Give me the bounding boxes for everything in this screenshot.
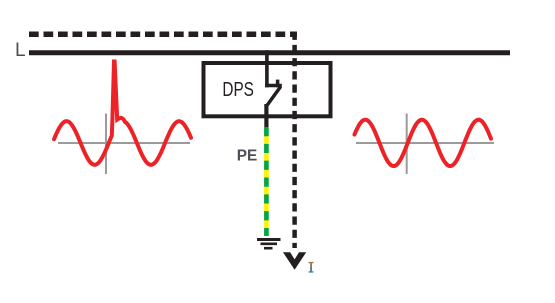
svg-text:L: L: [15, 40, 26, 61]
svg-text:DPS: DPS: [222, 79, 254, 101]
svg-text:PE: PE: [237, 148, 258, 165]
